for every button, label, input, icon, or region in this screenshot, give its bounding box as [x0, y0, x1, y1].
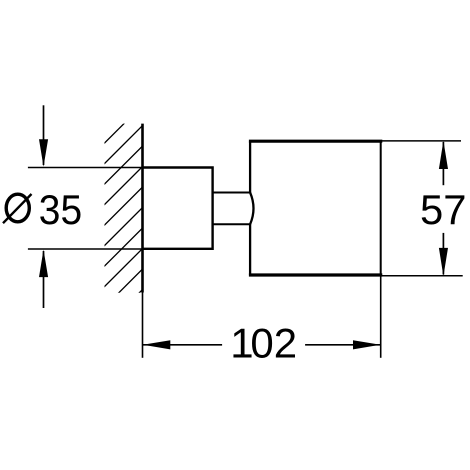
svg-text:57: 57: [420, 186, 467, 233]
svg-text:35: 35: [39, 186, 82, 233]
svg-text:102: 102: [230, 320, 297, 367]
